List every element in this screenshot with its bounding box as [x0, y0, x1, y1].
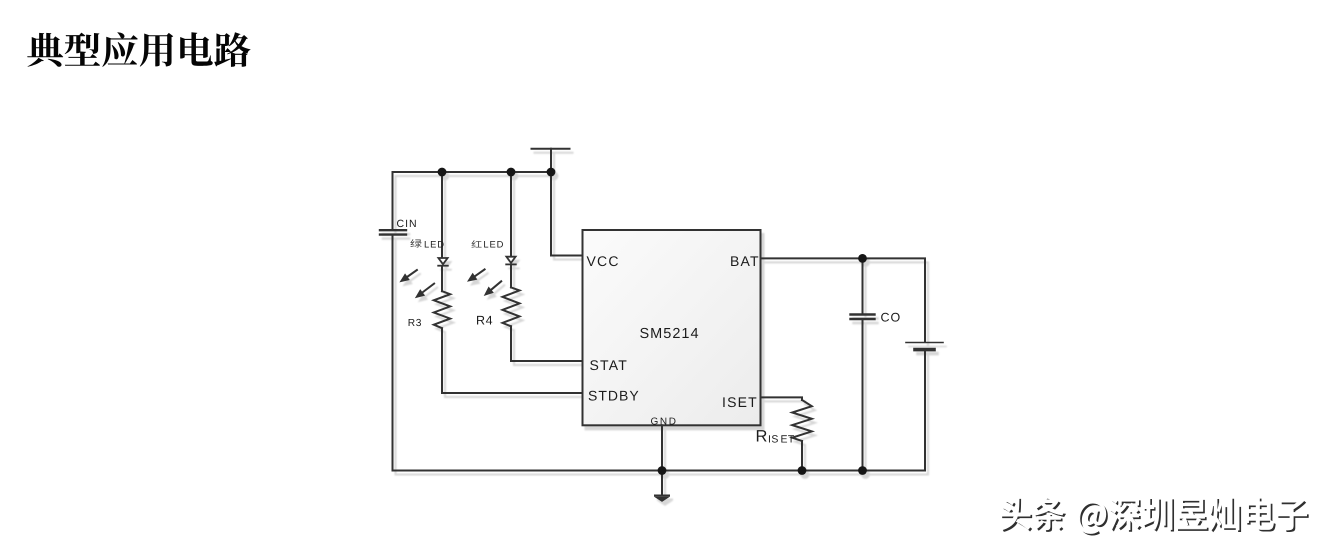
svg-text:BAT: BAT — [730, 253, 760, 269]
svg-text:CIN: CIN — [397, 218, 418, 230]
svg-text:LED: LED — [424, 238, 445, 249]
svg-text:ET: ET — [781, 433, 795, 445]
svg-text:R: R — [756, 427, 768, 445]
svg-text:SM5214: SM5214 — [640, 326, 700, 342]
svg-text:R4: R4 — [476, 314, 493, 328]
svg-text:LED: LED — [483, 239, 504, 250]
svg-text:STAT: STAT — [590, 357, 629, 373]
svg-text:ISET: ISET — [722, 394, 758, 410]
svg-text:STDBY: STDBY — [588, 387, 640, 403]
svg-text:R3: R3 — [408, 318, 422, 329]
svg-text:VCC: VCC — [587, 253, 620, 269]
svg-text:IS: IS — [768, 433, 779, 445]
svg-text:CO: CO — [881, 311, 902, 325]
svg-text:GND: GND — [651, 417, 678, 428]
